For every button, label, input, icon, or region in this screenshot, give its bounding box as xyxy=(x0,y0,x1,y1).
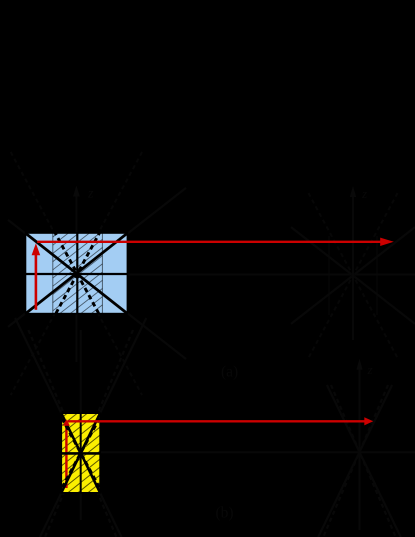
square horizontal midline xyxy=(26,273,128,275)
svg-text:z: z xyxy=(367,362,373,377)
svg-text:(a): (a) xyxy=(221,364,238,381)
red vertical force arrow of rectangle: head (over black) xyxy=(63,419,70,426)
rectangle horizontal midline xyxy=(61,452,100,455)
svg-text:z: z xyxy=(87,187,94,202)
rectangle solid diagonal TR-BL xyxy=(61,413,100,493)
rectangle solid diagonal TL-BR xyxy=(61,413,100,493)
quarter vertical right xyxy=(101,233,103,314)
star solid diagonal down-right xyxy=(291,227,415,324)
square dashed axis down-right xyxy=(54,231,100,316)
bottom star solid diagonal down-left xyxy=(318,385,392,537)
extended dashed axis of square (steep, down-right) xyxy=(11,152,142,395)
arrowhead of square z-axis xyxy=(73,186,80,197)
square dashed axis down-left xyxy=(55,231,101,316)
rectangle dashed axis down-right xyxy=(58,411,103,495)
star vertical axis arrowhead xyxy=(350,186,356,197)
star dashed steep up-right xyxy=(308,193,397,358)
red horizontal force arrow of top row: shaft xyxy=(37,241,381,243)
rectangle yellow fill xyxy=(61,413,100,493)
red horizontal force arrow of bottom row: head xyxy=(364,417,373,425)
quarter vertical left xyxy=(52,233,54,314)
red vertical force arrow of square: head xyxy=(32,243,41,255)
extended solid diagonal of square (up-right) xyxy=(8,188,186,327)
star dashed steep down-right xyxy=(308,193,397,358)
rectangle vertical midline xyxy=(80,413,82,493)
bottom star solid diagonal down-right xyxy=(327,385,401,537)
bottom star vertical axis arrowhead xyxy=(356,359,362,370)
rectangle dashed axis down-left xyxy=(58,411,103,495)
bottom star dashed down-right xyxy=(331,385,396,537)
vertical z-axis of square xyxy=(75,196,77,362)
svg-text:(b): (b) xyxy=(216,505,234,522)
red vertical force arrow of rectangle: shaft (under black lines) xyxy=(65,421,67,488)
square border xyxy=(26,233,128,314)
star solid diagonal up-right xyxy=(291,227,415,324)
extended dashed axis of rectangle (down-left) xyxy=(45,330,133,537)
long horizontal y-axis of bottom row xyxy=(100,451,415,453)
extended dashed axis of rectangle (down-right) xyxy=(28,330,116,537)
extended dashed axis of square (steep, down-left) xyxy=(11,152,142,395)
red horizontal force arrow of top row: head xyxy=(380,238,394,246)
rectangle border xyxy=(61,413,100,493)
svg-text:z: z xyxy=(361,186,367,201)
square vertical midline xyxy=(76,233,78,314)
hatching of rectangle xyxy=(61,387,100,522)
star quarter verticals xyxy=(328,236,330,315)
hatching of middle band xyxy=(53,198,103,351)
bottom star dashed down-left xyxy=(323,385,388,537)
extended solid diagonal of rectangle (down-right) xyxy=(15,318,121,537)
star vertical axis xyxy=(352,196,354,340)
extended solid diagonal of square (down-right) xyxy=(8,220,186,359)
long horizontal y-axis of top row xyxy=(127,274,415,276)
extended solid diagonal of rectangle (down-left) xyxy=(40,318,146,537)
red vertical force arrow of square: shaft xyxy=(35,252,38,310)
square solid diagonal TL-BR xyxy=(26,233,128,313)
square blue fill xyxy=(26,233,128,314)
bottom star vertical axis xyxy=(359,369,361,530)
red horizontal force arrow of bottom row: shaft xyxy=(68,420,366,422)
square solid diagonal BL-TR xyxy=(26,233,128,313)
rectangle vertical axis above and below xyxy=(80,330,82,413)
